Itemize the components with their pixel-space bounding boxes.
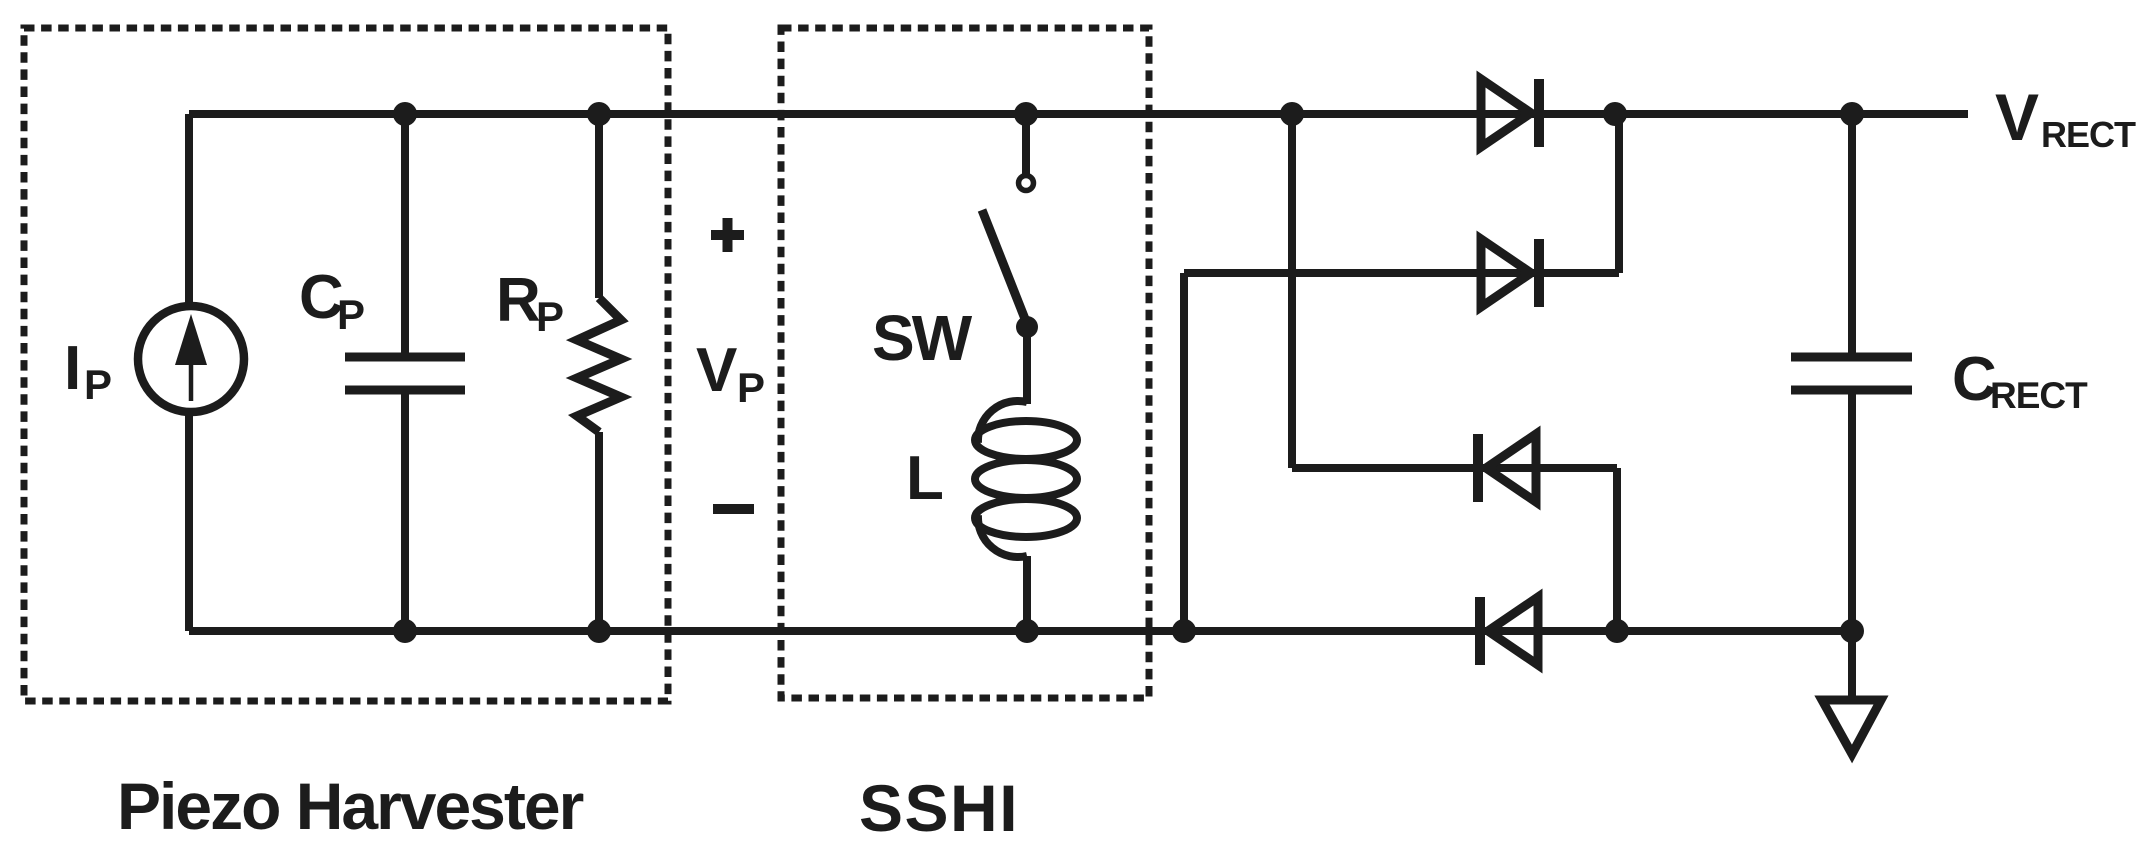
wire Ip upper lead <box>185 114 193 307</box>
switch SW lower contact dot <box>1016 316 1038 338</box>
svg-text:RECT: RECT <box>1990 375 2088 416</box>
junction dot bottom rail / bridge left-lower <box>1172 619 1196 643</box>
svg-text:V: V <box>696 336 737 405</box>
capacitor C_RECT <box>1791 353 1912 362</box>
junction dot bottom rail / D3-D4 <box>1605 619 1629 643</box>
inductor L top hook <box>978 401 1027 443</box>
svg-text:RECT: RECT <box>2041 114 2136 155</box>
junction dot bottom rail / Rp <box>587 619 611 643</box>
diode D3 triangle <box>1486 434 1536 502</box>
wire ground stub <box>1848 631 1856 699</box>
svg-text:P: P <box>84 361 112 408</box>
svg-text:Piezo Harvester: Piezo Harvester <box>117 769 584 843</box>
svg-text:V: V <box>1995 80 2039 154</box>
resistor R_P <box>577 298 621 432</box>
svg-text:P: P <box>337 291 365 338</box>
inductor L coil loop 3 <box>975 499 1077 537</box>
switch SW stub from top rail <box>1022 114 1030 174</box>
wire D3 output vertical down to bottom rail <box>1613 468 1621 631</box>
current source arrow <box>189 358 194 401</box>
wire Cp upper lead <box>401 114 409 357</box>
junction dot top rail / SW <box>1014 102 1038 126</box>
diode D1 triangle <box>1481 79 1531 147</box>
wire bridge left-upper vertical (top rail to row3) <box>1288 114 1296 468</box>
svg-text:SSHI: SSHI <box>859 771 1019 845</box>
junction dot top rail / bridge left-upper <box>1280 102 1304 126</box>
svg-text:P: P <box>536 293 564 340</box>
svg-text:R: R <box>496 266 541 335</box>
switch SW blade <box>982 210 1027 324</box>
svg-text:SW: SW <box>872 302 973 374</box>
junction dot bottom rail / L <box>1015 619 1039 643</box>
wire Ip lower lead <box>185 412 193 631</box>
wire Crect upper lead <box>1848 114 1856 357</box>
diode D4 triangle <box>1488 597 1538 665</box>
junction dot bottom rail / Crect-ground <box>1840 619 1864 643</box>
minus sign of Vp <box>713 504 754 514</box>
switch SW open terminal <box>1019 176 1034 191</box>
wire Crect lower lead <box>1848 390 1856 631</box>
SSHI dashed box <box>781 28 1149 698</box>
wire switch to inductor <box>1023 327 1031 404</box>
diode D4 cathode bar <box>1475 597 1485 665</box>
svg-text:I: I <box>64 334 81 403</box>
wire bridge left-lower vertical (bottom rail to row2) <box>1180 273 1188 631</box>
junction dot top rail / Rp <box>587 102 611 126</box>
wire Rp upper lead <box>595 114 603 298</box>
svg-text:P: P <box>737 364 765 411</box>
capacitor C_P <box>345 353 465 362</box>
junction dot top rail / D1-D2 cathodes <box>1603 102 1627 126</box>
inductor L bottom hook <box>978 515 1027 557</box>
diode D3 cathode bar <box>1473 434 1483 502</box>
junction dot bottom rail / Cp <box>393 619 417 643</box>
wire D2 output vertical up to top rail <box>1615 114 1623 273</box>
wire top rail node VP+ <box>189 110 1968 118</box>
plus sign of Vp <box>711 218 744 252</box>
wire Rp lower lead <box>595 432 603 631</box>
wire inductor to bottom rail <box>1023 556 1031 631</box>
junction dot top rail / Crect <box>1840 102 1864 126</box>
inductor L coil loop 1 <box>975 421 1077 459</box>
svg-text:L: L <box>906 444 944 513</box>
wire bottom rail node VP- <box>189 627 1852 635</box>
diode D2 triangle <box>1481 239 1531 307</box>
diode D1 cathode bar <box>1534 79 1544 147</box>
current source I_P <box>138 306 244 412</box>
Piezo Harvester dashed box <box>24 28 668 701</box>
junction dot top rail / Cp <box>393 102 417 126</box>
wire row2 horizontal (to D2) <box>1184 269 1619 277</box>
wire row3 horizontal (to D3) <box>1292 464 1617 472</box>
inductor L coil loop 2 <box>975 460 1077 498</box>
diode D2 cathode bar <box>1534 239 1544 307</box>
wire Cp lower lead <box>401 390 409 631</box>
ground symbol <box>1822 700 1881 754</box>
